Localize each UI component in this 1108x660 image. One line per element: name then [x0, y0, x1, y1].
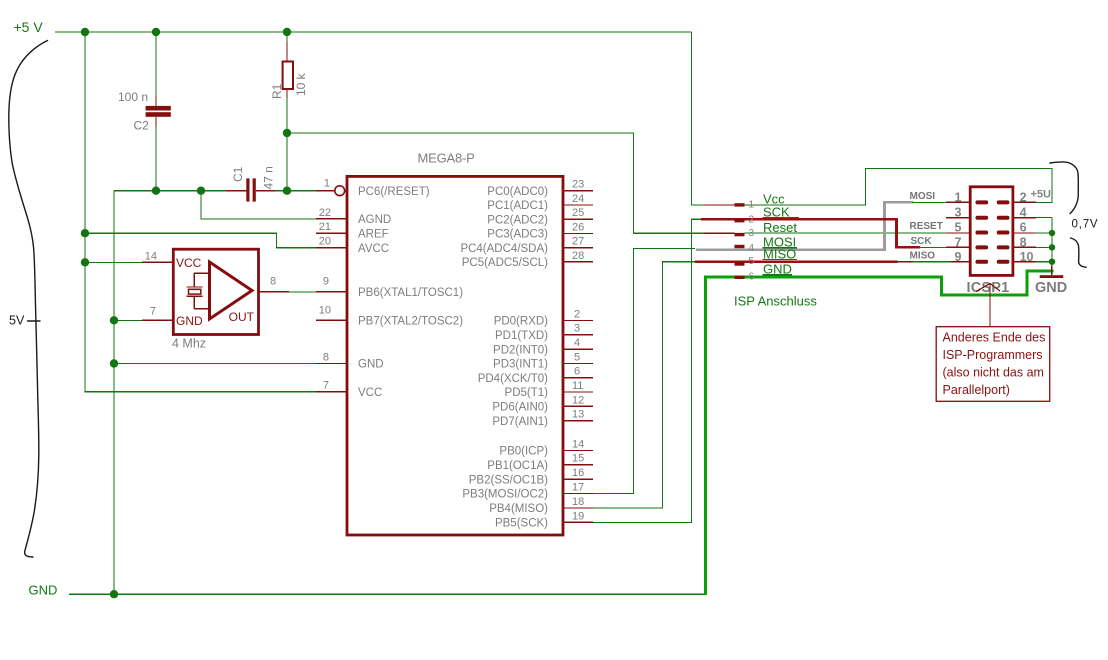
- wire C2 bottom: [155, 117, 157, 128]
- svg-text:0,7V: 0,7V: [1072, 218, 1099, 230]
- wire pin8 stub: [1036, 246, 1052, 248]
- svg-text:5: 5: [955, 220, 962, 234]
- right pin leads group PB: [563, 450, 593, 522]
- svg-text:4: 4: [749, 243, 755, 254]
- svg-text:PC0(ADC0): PC0(ADC0): [487, 186, 548, 198]
- wire reset to connector pin 5: [745, 232, 948, 234]
- svg-text:2: 2: [1020, 190, 1027, 204]
- pin 9 lead: [316, 291, 347, 293]
- right pin names: [460, 186, 548, 530]
- svg-text:13: 13: [572, 409, 584, 421]
- pin 21 lead: [316, 232, 347, 234]
- svg-text:20: 20: [319, 236, 331, 248]
- pin 10 lead: [316, 319, 347, 321]
- svg-text:16: 16: [572, 467, 584, 479]
- svg-text:PC5(ADC5/SCL): PC5(ADC5/SCL): [462, 257, 548, 269]
- left pin names: [358, 186, 463, 399]
- net label stub SCK: [735, 219, 745, 222]
- svg-text:3: 3: [955, 206, 962, 220]
- wire pin4 stub: [1036, 217, 1052, 219]
- svg-text:7: 7: [150, 306, 156, 318]
- svg-text:MISO: MISO: [910, 251, 936, 262]
- svg-text:PD1(TXD): PD1(TXD): [495, 330, 548, 342]
- wire gnd vertical x=114: [113, 191, 115, 595]
- svg-text:Reset: Reset: [763, 220, 797, 235]
- svg-text:AREF: AREF: [358, 228, 389, 240]
- junction on rail at x=85: [81, 28, 89, 36]
- junction on rail at x=287: [283, 28, 291, 36]
- wire +5V to ISP Vcc: [691, 32, 704, 205]
- svg-text:1: 1: [324, 178, 330, 190]
- connector pads row 2: [976, 216, 989, 220]
- annotation right brace lower: [1071, 238, 1087, 267]
- svg-text:8: 8: [1020, 235, 1027, 249]
- svg-text:PC3(ADC3): PC3(ADC3): [487, 229, 548, 241]
- svg-text:3: 3: [749, 228, 755, 239]
- wire to AVCC pin 20: [85, 233, 316, 248]
- svg-text:ISP Anschluss: ISP Anschluss: [734, 294, 817, 309]
- wire MOSI from pin 17: [593, 248, 695, 493]
- label lead reset: [705, 232, 735, 234]
- svg-text:100 n: 100 n: [118, 90, 148, 104]
- IC U1 MEGA8-P: [347, 176, 563, 535]
- wire SCK thick red segment: [701, 219, 920, 247]
- net label stub Reset: [735, 233, 745, 236]
- svg-text:26: 26: [572, 221, 584, 233]
- svg-text:PB2(SS/OC1B): PB2(SS/OC1B): [469, 474, 548, 486]
- junction pin10: [1049, 259, 1055, 265]
- svg-text:GND: GND: [1035, 280, 1067, 296]
- svg-text:PD6(AIN0): PD6(AIN0): [492, 402, 548, 414]
- junction C2 bottom: [152, 187, 160, 195]
- svg-text:11: 11: [572, 380, 583, 392]
- junction on rail at x=156: [152, 28, 160, 36]
- svg-text:PC6(/RESET): PC6(/RESET): [358, 186, 430, 198]
- svg-text:1: 1: [955, 190, 962, 204]
- wire bottom GND rail: [69, 593, 705, 595]
- svg-text:(also nicht das am: (also nicht das am: [943, 366, 1044, 380]
- svg-text:SCK: SCK: [911, 236, 933, 247]
- net label numbers 1-6: [749, 200, 755, 283]
- svg-text:6: 6: [574, 366, 580, 378]
- oscillator pin 7 lead: [142, 319, 173, 321]
- svg-text:AGND: AGND: [358, 214, 391, 226]
- svg-text:2: 2: [749, 214, 755, 225]
- wire R1 bottom: [286, 98, 288, 191]
- svg-text:10: 10: [1020, 250, 1034, 264]
- wire +5V vertical to MCU VCC: [85, 32, 316, 392]
- svg-text:PB1(OC1A): PB1(OC1A): [487, 460, 548, 472]
- svg-text:19: 19: [572, 510, 584, 522]
- callout box Anderes Ende: [936, 327, 1049, 402]
- svg-text:PB7(XTAL2/TOSC2): PB7(XTAL2/TOSC2): [358, 316, 463, 328]
- svg-text:47 n: 47 n: [262, 166, 276, 189]
- wire C2 top: [155, 32, 157, 97]
- svg-text:PC1(ADC1): PC1(ADC1): [487, 200, 548, 212]
- callout leader line with arrowhead: [976, 284, 1000, 327]
- svg-text:6: 6: [1020, 220, 1027, 234]
- oscillator Q1 4MHz: [173, 249, 258, 334]
- wire reset to ISP: [287, 133, 705, 233]
- svg-text:5: 5: [574, 351, 580, 363]
- svg-text:4: 4: [574, 337, 580, 349]
- svg-text:PD7(AIN1): PD7(AIN1): [492, 416, 548, 428]
- wire pin10 stub: [1036, 261, 1052, 263]
- wire +5V top rail: [55, 31, 691, 33]
- wire MISO from pin 18: [593, 262, 696, 508]
- svg-text:PB4(MISO): PB4(MISO): [489, 503, 548, 515]
- net label stub Vcc: [735, 203, 745, 206]
- svg-text:R1: R1: [270, 83, 284, 99]
- svg-text:C1: C1: [231, 166, 245, 182]
- svg-text:PC4(ADC4/SDA): PC4(ADC4/SDA): [460, 243, 548, 255]
- svg-text:ICSP1: ICSP1: [967, 280, 1010, 296]
- connector ICSP1: [970, 187, 1013, 276]
- wire MOSI green into connector pin 1: [912, 201, 947, 203]
- net label stub GND: [735, 276, 745, 279]
- oscillator pin 8 lead: [259, 291, 290, 293]
- svg-text:25: 25: [572, 207, 584, 219]
- svg-text:14: 14: [145, 251, 157, 263]
- svg-text:24: 24: [572, 193, 584, 205]
- junction node AREF branch: [81, 229, 89, 237]
- svg-text:PB6(XTAL1/TOSC1): PB6(XTAL1/TOSC1): [358, 287, 463, 299]
- svg-text:22: 22: [319, 207, 331, 219]
- wire to AGND pin 22: [201, 191, 316, 219]
- right pin numbers: [572, 179, 584, 523]
- svg-text:5V: 5V: [9, 314, 25, 328]
- wire MISO thick red segment: [695, 260, 898, 263]
- svg-text:7: 7: [323, 380, 329, 392]
- svg-text:VCC: VCC: [176, 256, 202, 270]
- svg-text:PD0(RXD): PD0(RXD): [494, 316, 548, 328]
- connector pin numbers right: [1020, 190, 1034, 264]
- annotation right brace upper: [1050, 162, 1078, 214]
- wire to oscillator GND pin 7: [114, 319, 142, 321]
- svg-text:4: 4: [1020, 206, 1027, 220]
- svg-text:GND: GND: [29, 583, 58, 598]
- svg-text:MOSI: MOSI: [910, 191, 936, 202]
- right pin leads group PD: [563, 320, 593, 420]
- svg-text:GND: GND: [358, 359, 384, 371]
- junction node oscillator VCC branch: [81, 258, 89, 266]
- wire to oscillator VCC pin 14: [85, 261, 142, 263]
- wire Vcc loop to connector pin 2: [745, 169, 1053, 205]
- svg-text:14: 14: [572, 438, 584, 450]
- svg-text:AVCC: AVCC: [358, 243, 389, 255]
- junction node R1/reset: [283, 129, 291, 137]
- svg-text:10: 10: [319, 304, 331, 316]
- svg-text:C2: C2: [134, 119, 150, 133]
- svg-text:4 Mhz: 4 Mhz: [172, 337, 206, 351]
- junction reset node: [283, 187, 291, 195]
- svg-text:18: 18: [572, 496, 584, 508]
- pin 20 lead: [316, 247, 347, 249]
- net label stub MISO: [735, 262, 745, 265]
- svg-text:1: 1: [749, 200, 755, 211]
- junction pin8: [1049, 244, 1055, 250]
- junction MCU GND: [110, 359, 118, 367]
- connector pin numbers left: [955, 190, 962, 264]
- connector right leads: [1013, 202, 1036, 261]
- capacitor C1: [246, 178, 256, 201]
- svg-text:21: 21: [319, 221, 331, 233]
- wire GND thick net: [706, 271, 1054, 595]
- connector pads row 1: [976, 200, 989, 204]
- ground symbol: [1040, 266, 1064, 279]
- svg-text:15: 15: [572, 453, 584, 465]
- svg-text:8: 8: [270, 276, 276, 288]
- svg-text:OUT: OUT: [229, 310, 255, 324]
- svg-text:23: 23: [572, 179, 584, 191]
- svg-text:MEGA8-P: MEGA8-P: [418, 150, 475, 165]
- svg-text:PC2(ADC2): PC2(ADC2): [487, 214, 548, 226]
- right pin leads group PC: [563, 191, 593, 262]
- svg-text:9: 9: [955, 250, 962, 264]
- svg-text:Parallelport): Parallelport): [943, 383, 1010, 397]
- wire to MCU GND pin 8: [114, 363, 316, 365]
- svg-text:PB0(ICP): PB0(ICP): [499, 446, 548, 458]
- pin 1 inversion bubble: [335, 186, 345, 196]
- svg-text:12: 12: [572, 394, 584, 406]
- svg-text:ISP-Programmers: ISP-Programmers: [943, 348, 1043, 362]
- wire MOSI gray segment: [696, 202, 913, 249]
- wire pin6 stub: [1036, 232, 1052, 234]
- net label stub MOSI: [735, 245, 745, 248]
- oscillator pin 14 lead: [142, 261, 173, 263]
- annotation 5V tick: [28, 320, 41, 322]
- wire GND pins 4-6-8-10 vertical: [1051, 218, 1053, 266]
- connector signal labels: [910, 189, 1052, 262]
- svg-text:3: 3: [574, 323, 580, 335]
- wire gnd row left: [114, 190, 227, 192]
- wire pin2 +5V stub: [1036, 201, 1052, 203]
- wire SCK from pin 19: [593, 219, 702, 522]
- svg-text:+5 V: +5 V: [14, 19, 44, 35]
- svg-text:9: 9: [323, 276, 329, 288]
- svg-text:Anderes Ende des: Anderes Ende des: [943, 331, 1046, 345]
- connector pads row 3: [976, 231, 989, 235]
- svg-text:PD2(INT0): PD2(INT0): [493, 344, 548, 356]
- svg-text:PD3(INT1): PD3(INT1): [493, 359, 548, 371]
- pin 7 lead: [316, 391, 347, 393]
- junction pin6: [1049, 230, 1055, 236]
- resistor R1: [283, 32, 293, 99]
- connector left leads: [946, 202, 970, 261]
- label lead Vcc: [705, 204, 735, 206]
- svg-text:6: 6: [749, 272, 755, 283]
- svg-text:RESET: RESET: [910, 221, 943, 232]
- svg-text:8: 8: [323, 352, 329, 364]
- svg-text:28: 28: [572, 250, 584, 262]
- svg-text:7: 7: [955, 235, 962, 249]
- pin 8 lead: [316, 363, 347, 365]
- connector pads row 4: [976, 245, 989, 249]
- pin 1 lead PC6: [316, 190, 347, 192]
- svg-text:5: 5: [749, 256, 755, 267]
- svg-text:+5U: +5U: [1031, 189, 1052, 201]
- svg-text:17: 17: [572, 482, 584, 494]
- junction bottom rail: [110, 590, 118, 598]
- capacitor C2: [146, 106, 171, 117]
- wire C1 right to reset pin: [256, 190, 276, 192]
- junction AGND branch: [197, 187, 205, 195]
- svg-text:2: 2: [574, 308, 580, 320]
- annotation left brace: [9, 41, 48, 558]
- wire oscillator out to PB6: [289, 291, 316, 293]
- svg-text:PD5(T1): PD5(T1): [505, 387, 549, 399]
- svg-text:10 k: 10 k: [294, 72, 308, 96]
- pin 22 lead: [316, 218, 347, 220]
- svg-text:GND: GND: [176, 314, 203, 328]
- svg-text:27: 27: [572, 236, 584, 248]
- junction oscillator GND: [110, 316, 118, 324]
- svg-text:PD4(XCK/T0): PD4(XCK/T0): [478, 373, 548, 385]
- svg-text:PB3(MOSI/OC2): PB3(MOSI/OC2): [462, 489, 548, 501]
- svg-text:VCC: VCC: [358, 387, 382, 399]
- connector pads row 5: [976, 260, 989, 264]
- svg-text:PB5(SCK): PB5(SCK): [495, 518, 548, 530]
